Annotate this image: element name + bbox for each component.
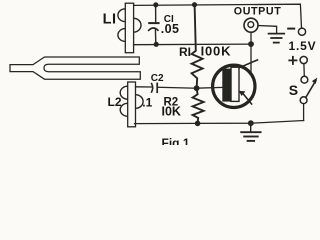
svg-text:I0K: I0K bbox=[162, 105, 181, 119]
svg-text:.1: .1 bbox=[142, 96, 152, 110]
wire: base node to transistor bbox=[197, 86, 223, 89]
node: base junction bbox=[194, 85, 200, 91]
wire: bottom rail bbox=[135, 121, 304, 124]
switch S bbox=[300, 76, 317, 103]
plus sign bbox=[289, 57, 296, 64]
output jack J1 bbox=[244, 18, 258, 32]
wire: C2 to base node bbox=[158, 86, 197, 89]
svg-text:S: S bbox=[289, 82, 298, 98]
coil L2 bbox=[120, 82, 143, 127]
minus sign bbox=[288, 28, 294, 30]
resistor R2 bbox=[193, 88, 204, 123]
svg-text:I00K: I00K bbox=[201, 44, 232, 59]
resistor R1 bbox=[192, 5, 203, 88]
svg-text:C2: C2 bbox=[151, 73, 164, 84]
svg-text:LI: LI bbox=[103, 12, 117, 28]
wire: battery plus to switch bbox=[303, 64, 305, 77]
node: C1 bottom junction bbox=[154, 42, 159, 47]
wire: L1 bottom to collector node bbox=[134, 43, 251, 46]
wire: top rail from L1 to upper-right corner, down to battery minus bbox=[134, 4, 302, 28]
ground (emitter) bbox=[241, 123, 260, 141]
battery B1 minus terminal bbox=[298, 28, 305, 35]
wire: jack sleeve to ground bbox=[258, 26, 277, 33]
tuning fork bbox=[10, 57, 140, 79]
coil L1 bbox=[118, 3, 141, 53]
wire: jack down to collector node bbox=[250, 32, 252, 71]
node: collector junction bbox=[248, 41, 254, 47]
svg-text:Fig.1: Fig.1 bbox=[162, 136, 190, 145]
capacitor C1 bbox=[149, 5, 159, 44]
node: R2 bottom junction bbox=[195, 121, 201, 127]
capacitor C2 bbox=[152, 83, 158, 92]
svg-text:1.5V: 1.5V bbox=[289, 39, 317, 53]
wire: switch to bottom rail bbox=[303, 104, 305, 121]
node: emitter/ground junction bbox=[248, 120, 254, 126]
svg-text:OUTPUT: OUTPUT bbox=[234, 6, 282, 18]
transistor Q1 bbox=[213, 60, 258, 108]
svg-text:.05: .05 bbox=[161, 22, 180, 36]
svg-text:L2: L2 bbox=[108, 95, 122, 109]
ground (output) bbox=[269, 34, 285, 43]
node: R1 top junction bbox=[192, 2, 197, 7]
battery B1 plus terminal bbox=[300, 56, 307, 63]
wire: L2 top to C2 bbox=[136, 86, 153, 88]
svg-text:RI: RI bbox=[179, 45, 191, 59]
node: C1 top junction bbox=[153, 2, 158, 7]
